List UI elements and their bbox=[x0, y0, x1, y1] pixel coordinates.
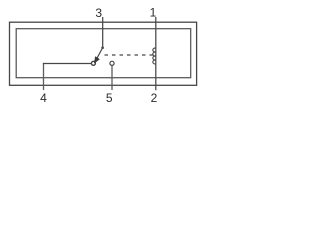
pin 1 / coil lead bbox=[155, 17, 157, 90]
actuator dashed link bbox=[105, 54, 154, 56]
pin 3 lead bbox=[102, 17, 104, 48]
svg-text:2: 2 bbox=[151, 91, 158, 105]
svg-text:3: 3 bbox=[95, 6, 102, 20]
switch lever bbox=[96, 48, 103, 61]
svg-text:5: 5 bbox=[106, 91, 113, 105]
relay inner case outline bbox=[16, 29, 191, 78]
lever arrowhead bbox=[95, 57, 100, 63]
wire common (pin 4 to NC contact) bbox=[43, 63, 92, 65]
coil L1 bbox=[153, 48, 156, 64]
contact NO circle bbox=[110, 61, 114, 65]
contact NC circle bbox=[91, 61, 95, 65]
pin 4 lead bbox=[43, 63, 45, 90]
lever pivot junction bbox=[101, 46, 104, 49]
relay outer case outline bbox=[10, 22, 197, 85]
pin 5 lead bbox=[111, 66, 113, 90]
svg-text:4: 4 bbox=[40, 91, 47, 105]
svg-text:1: 1 bbox=[150, 6, 157, 20]
